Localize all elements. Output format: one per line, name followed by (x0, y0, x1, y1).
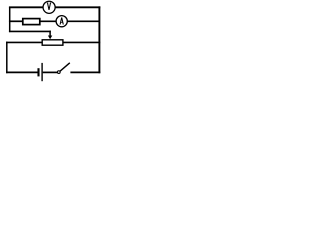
wire: top wire, left segment to voltmeter (9, 6, 43, 8)
rheostat R2 (slide rheostat body) (42, 40, 63, 45)
wire: bottom row, segment between battery and switch (43, 71, 58, 73)
voltmeter V1 (43, 1, 55, 13)
wire: top wire, right segment from voltmeter to right vertical (55, 6, 100, 8)
battery B1 (single cell) (39, 63, 43, 81)
wire: lower-left vertical (rheostat left lead down to battery row) (6, 42, 8, 74)
wire: right vertical bus (joins top wire, ammeter row, rheostat row, bottom row) (98, 6, 100, 73)
ammeter A1 (56, 16, 67, 27)
wire: ammeter row, segment between resistor and ammeter (40, 20, 57, 22)
wire: wiper lead horizontal (from left vertical to above rheostat slider) (9, 30, 51, 32)
wire: voltmeter-loop left vertical (node between V, R branch and wiper lead) (9, 7, 11, 33)
wire: bottom row, right segment from switch to right vertical (70, 71, 100, 73)
wire: rheostat left lead (6, 41, 42, 43)
wire: bottom row, left segment to battery (6, 71, 37, 73)
wire: rheostat right lead to right vertical (63, 41, 100, 43)
resistor R1 (23, 19, 40, 25)
wire: ammeter row, right segment to right vertical (67, 20, 99, 22)
wire: ammeter row, left segment to resistor (9, 20, 23, 22)
switch S1 (open) (57, 63, 69, 74)
wiper arrow of rheostat (slider contact) (48, 31, 52, 40)
